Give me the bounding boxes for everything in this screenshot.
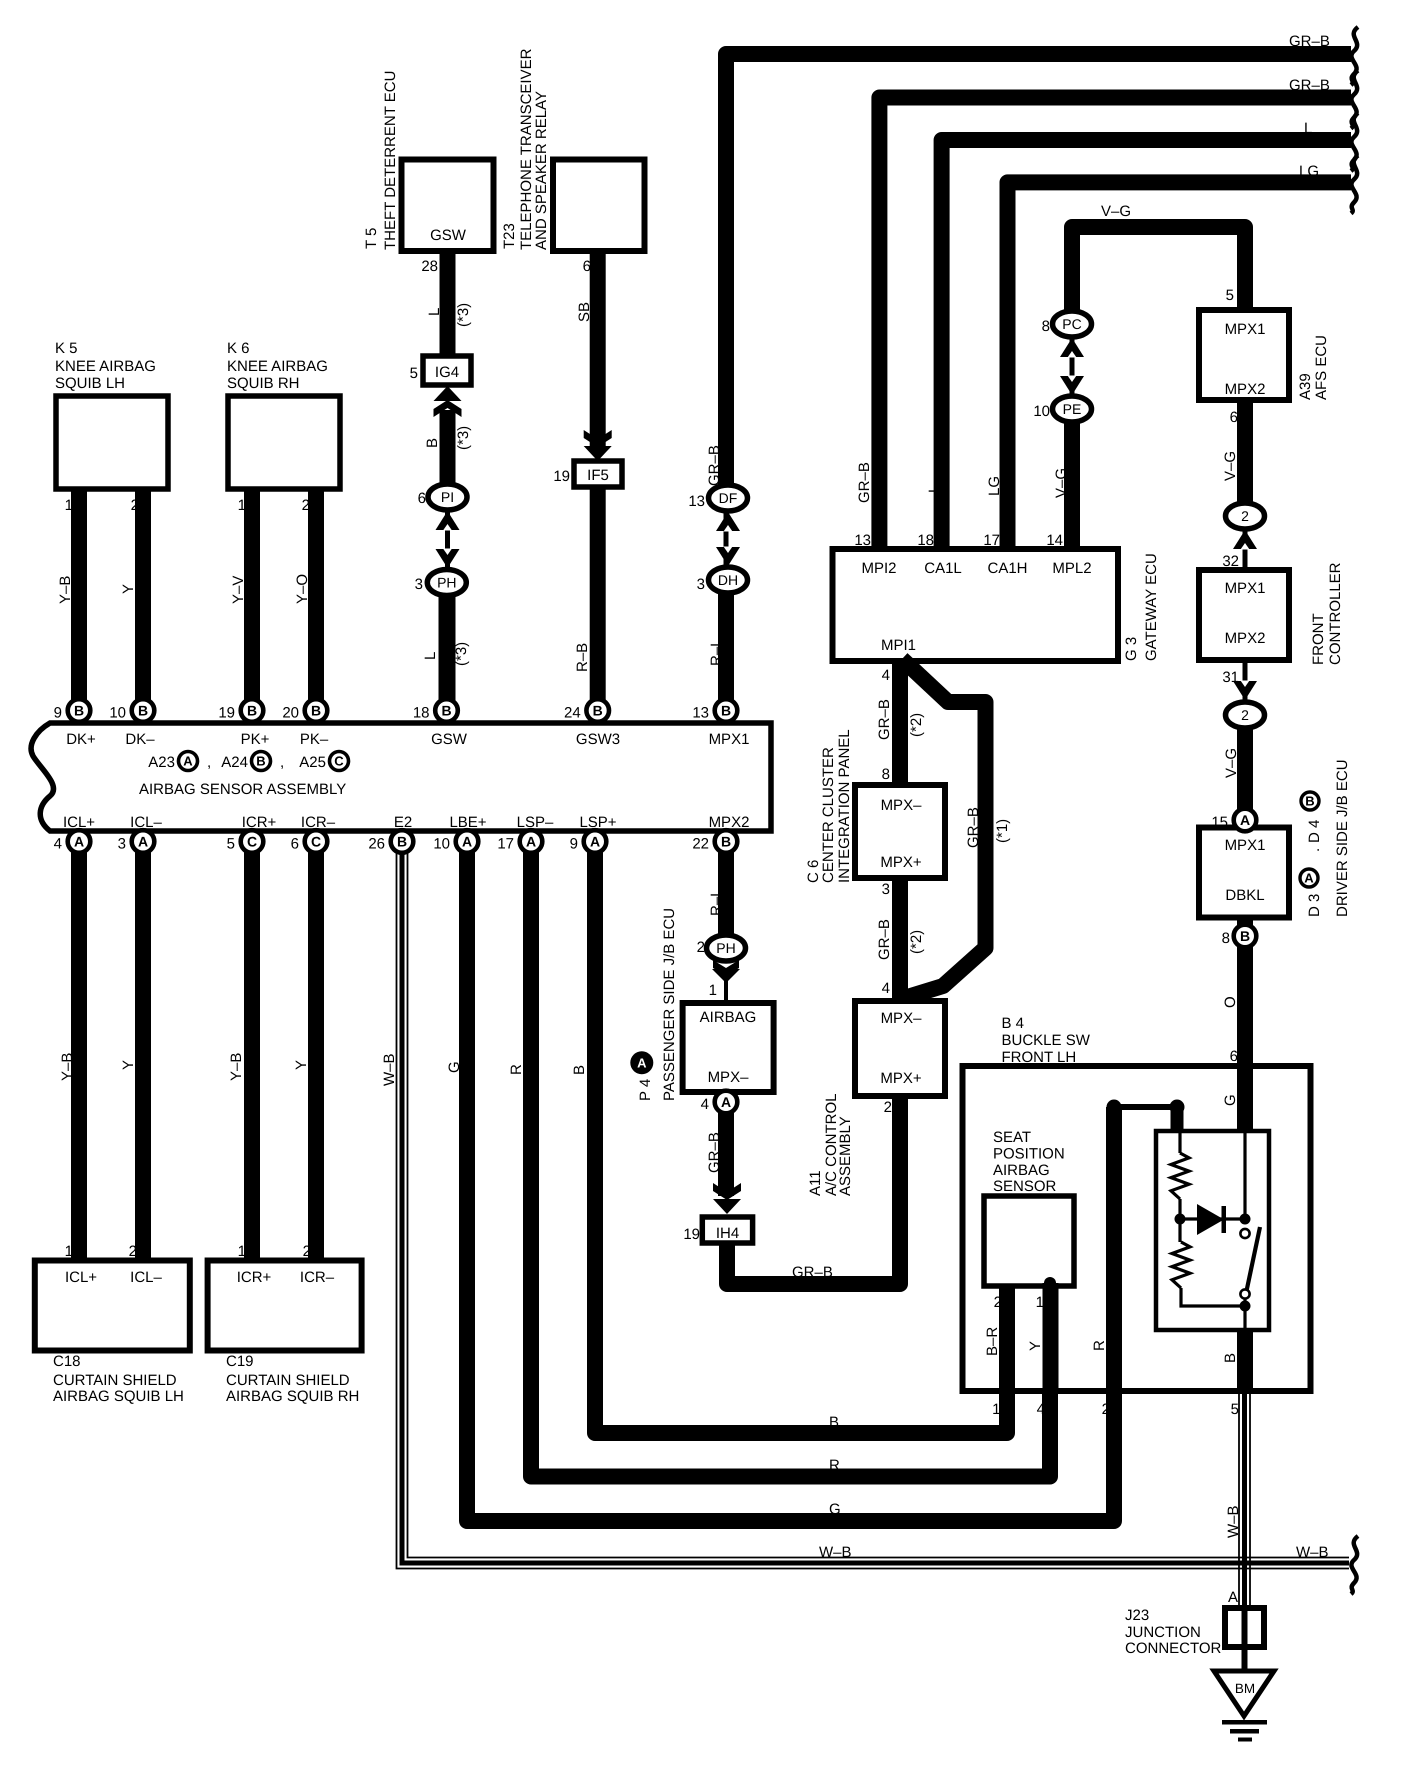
- component T23 box: [553, 160, 645, 252]
- svg-text:(*3): (*3): [453, 642, 470, 666]
- component G3 GATEWAY ECU box: [833, 549, 1119, 661]
- svg-text:A11: A11: [807, 1170, 824, 1196]
- svg-text:6: 6: [1230, 1048, 1238, 1065]
- wire junction2 to driver JB V-G: [1237, 728, 1253, 822]
- svg-text:B: B: [256, 754, 265, 769]
- wire MPI1 GR-B (*2) to C6: [892, 661, 908, 790]
- svg-text:26: 26: [368, 836, 385, 853]
- svg-text:,: ,: [207, 754, 211, 771]
- svg-text:D 4: D 4: [1306, 820, 1323, 843]
- svg-text:B: B: [247, 703, 257, 719]
- svg-text:A: A: [183, 754, 193, 769]
- svg-text:B: B: [829, 1414, 839, 1431]
- pin 5 C circle assembly bottom: [241, 830, 264, 853]
- svg-text:B: B: [571, 1065, 588, 1075]
- svg-text:POSITION: POSITION: [993, 1146, 1065, 1163]
- svg-text:Y–B: Y–B: [228, 1053, 245, 1081]
- wire PE to gateway MPL2 V-G: [1064, 422, 1080, 549]
- svg-text:L: L: [1304, 120, 1312, 137]
- svg-text:2: 2: [994, 1294, 1002, 1311]
- svg-text:C19: C19: [226, 1353, 254, 1370]
- svg-text:5: 5: [1231, 1401, 1239, 1418]
- break symbol GR-B second: [1351, 71, 1358, 129]
- svg-text:MPX2: MPX2: [1225, 630, 1266, 647]
- svg-text:6: 6: [291, 836, 299, 853]
- svg-text:B: B: [721, 703, 731, 719]
- svg-text:(*1): (*1): [994, 819, 1011, 843]
- connector PH pin 3: [427, 570, 466, 596]
- ground symbol: [1222, 1720, 1267, 1725]
- svg-text:G: G: [1222, 1094, 1239, 1106]
- wire T23 pin6 SB: [590, 251, 606, 446]
- svg-text:A39: A39: [1297, 373, 1314, 400]
- svg-text:28: 28: [421, 258, 438, 275]
- pin 4 A circle assembly bottom: [68, 830, 91, 853]
- svg-text:DF: DF: [719, 490, 738, 506]
- svg-text:3: 3: [415, 576, 423, 593]
- wire J23 to ground triangle: [1242, 1650, 1248, 1672]
- svg-text:W–B: W–B: [819, 1544, 852, 1561]
- svg-text:2: 2: [129, 1243, 137, 1260]
- svg-text:GR–B: GR–B: [706, 445, 723, 486]
- svg-text:B: B: [1222, 1353, 1239, 1363]
- svg-text:JUNCTION: JUNCTION: [1125, 1624, 1201, 1641]
- svg-text:A: A: [462, 834, 472, 850]
- svg-text:L: L: [926, 485, 943, 493]
- arrow up into DF: [716, 512, 740, 531]
- resistor R1 seat belt: [1171, 1153, 1189, 1199]
- node junction right: [1240, 1214, 1251, 1225]
- wire GR-B MPI2 to right edge: [879, 98, 1351, 550]
- svg-text:AIRBAG: AIRBAG: [700, 1009, 757, 1026]
- svg-text:B: B: [424, 438, 441, 448]
- svg-text:8: 8: [882, 766, 890, 783]
- pin 24 B circle assembly top: [586, 699, 609, 722]
- svg-text:3: 3: [697, 576, 705, 593]
- svg-text:GSW3: GSW3: [576, 731, 620, 748]
- svg-text:PK+: PK+: [241, 731, 270, 748]
- svg-text:B: B: [441, 703, 451, 719]
- component C18 CURTAIN SHIELD AIRBAG SQUIB LH box: [35, 1261, 190, 1351]
- svg-text:AIRBAG SQUIB LH: AIRBAG SQUIB LH: [53, 1388, 184, 1405]
- pin 9 A circle assembly bottom: [584, 830, 607, 853]
- svg-text:18: 18: [917, 532, 934, 549]
- svg-text:R: R: [508, 1064, 525, 1075]
- wire C6 pin3 GR-B (*2) to A11: [892, 878, 908, 1005]
- svg-text:MPX1: MPX1: [1225, 321, 1266, 338]
- wire G inside B4 to switch box: [1237, 1066, 1253, 1131]
- svg-text:MPX+: MPX+: [880, 854, 922, 871]
- svg-text:LG: LG: [986, 476, 1003, 496]
- svg-text:GATEWAY ECU: GATEWAY ECU: [1143, 553, 1160, 661]
- wire GR-B MPX1 to right edge: [726, 54, 1351, 485]
- svg-text:3: 3: [118, 836, 126, 853]
- arrow into IH4: [713, 1199, 741, 1214]
- svg-text:2: 2: [1241, 707, 1249, 723]
- svg-text:1: 1: [709, 982, 717, 999]
- wire LBE+ G route: [467, 831, 1114, 1521]
- wire B from switch to B4 pin5: [1237, 1330, 1253, 1391]
- svg-text:Y–B: Y–B: [57, 576, 74, 604]
- svg-text:IF5: IF5: [587, 467, 609, 484]
- svg-text:5: 5: [227, 836, 235, 853]
- connector PH pin 2: [707, 935, 746, 961]
- svg-text:LSP–: LSP–: [517, 814, 554, 831]
- svg-text:SB: SB: [576, 302, 593, 322]
- svg-text:ICR+: ICR+: [242, 814, 277, 831]
- svg-text:B: B: [593, 703, 603, 719]
- wire W-B B4 pin5 to J23: [1242, 1391, 1247, 1652]
- component K6 KNEE AIRBAG SQUIB RH box: [228, 396, 340, 489]
- svg-text:19: 19: [683, 1226, 700, 1243]
- svg-text:2: 2: [302, 497, 310, 514]
- svg-text:PC: PC: [1062, 316, 1081, 332]
- svg-text:KNEE AIRBAG: KNEE AIRBAG: [227, 358, 328, 375]
- wire ICL- Y: [135, 831, 151, 1260]
- component P4 PASSENGER SIDE J/B ECU marker: [630, 1051, 653, 1074]
- svg-text:L: L: [426, 308, 443, 316]
- svg-text:R: R: [829, 1457, 840, 1474]
- svg-text:G: G: [829, 1501, 841, 1518]
- svg-text:2: 2: [884, 1099, 892, 1116]
- svg-text:DK–: DK–: [125, 731, 155, 748]
- wire K6 pin2 Y-O: [308, 489, 324, 718]
- wire K5 pin2 Y: [135, 489, 151, 718]
- svg-text:6: 6: [418, 490, 426, 507]
- svg-text:PI: PI: [441, 489, 454, 505]
- svg-text:ICR+: ICR+: [237, 1269, 272, 1286]
- wire assembly MPX2 R-L to PH: [718, 831, 734, 937]
- svg-text:P 4: P 4: [637, 1079, 654, 1101]
- svg-text:4: 4: [882, 980, 890, 997]
- svg-text:C: C: [334, 754, 344, 769]
- svg-text:V–G: V–G: [1222, 451, 1239, 481]
- svg-text:8: 8: [1222, 930, 1230, 947]
- svg-text:AFS ECU: AFS ECU: [1313, 335, 1330, 400]
- svg-text:10: 10: [1033, 403, 1050, 420]
- svg-text:AND SPEAKER RELAY: AND SPEAKER RELAY: [533, 91, 550, 250]
- wire LSP+ B route: [595, 831, 1007, 1433]
- wire airbag pin4 GR-B: [718, 1092, 734, 1196]
- svg-text:GR–B: GR–B: [792, 1264, 833, 1281]
- svg-text:17: 17: [983, 532, 1000, 549]
- svg-text:CURTAIN SHIELD: CURTAIN SHIELD: [53, 1372, 177, 1389]
- wire PH to assembly GSW L: [440, 593, 456, 718]
- svg-text:13: 13: [688, 493, 705, 510]
- svg-text:.: .: [1306, 848, 1323, 852]
- pin 18 B circle assembly top: [435, 699, 458, 722]
- pin 17 A circle assembly bottom: [520, 830, 543, 853]
- wire E2 W-B to right edge: [402, 831, 1349, 1563]
- svg-text:SQUIB RH: SQUIB RH: [227, 375, 300, 392]
- svg-text:B: B: [311, 703, 321, 719]
- svg-text:R: R: [1091, 1340, 1108, 1351]
- connector DF / DH pair: [724, 505, 729, 580]
- svg-text:5: 5: [1226, 287, 1234, 304]
- break symbol W-B right: [1351, 1536, 1358, 1594]
- svg-text:(*2): (*2): [908, 930, 925, 954]
- svg-text:24: 24: [564, 705, 581, 722]
- svg-text:2: 2: [697, 939, 705, 956]
- svg-text:9: 9: [54, 705, 62, 722]
- arrow up into PC: [1060, 338, 1084, 357]
- component FRONT CONTROLLER box: [1199, 570, 1289, 660]
- wire K6 pin1 Y-V: [244, 489, 260, 718]
- svg-text:Y–B: Y–B: [59, 1053, 76, 1081]
- svg-text:GR–B: GR–B: [706, 1132, 723, 1173]
- junction 2 lower oval: [1226, 702, 1265, 728]
- svg-text:DK+: DK+: [66, 731, 96, 748]
- component C6 CENTER CLUSTER INTEGRATION PANEL box: [855, 785, 945, 878]
- svg-text:KNEE AIRBAG: KNEE AIRBAG: [55, 358, 156, 375]
- svg-text:9: 9: [570, 836, 578, 853]
- component A11 A/C CONTROL ASSEMBLY box: [855, 1001, 945, 1096]
- diode D1: [1180, 1217, 1245, 1220]
- wire DH to assembly MPX1 R-L: [718, 593, 734, 718]
- pin 10 A circle assembly bottom: [456, 830, 479, 853]
- svg-text:Y: Y: [120, 584, 137, 594]
- svg-text:CA1L: CA1L: [924, 560, 962, 577]
- svg-text:B: B: [138, 703, 148, 719]
- arrow up into PI: [436, 511, 460, 530]
- svg-text:AIRBAG: AIRBAG: [993, 1162, 1050, 1179]
- wire L CA1L to right edge: [942, 140, 1351, 549]
- svg-text:C18: C18: [53, 1353, 81, 1370]
- svg-text:GSW: GSW: [431, 731, 468, 748]
- component J23 JUNCTION CONNECTOR box: [1225, 1608, 1264, 1647]
- svg-text:ICR–: ICR–: [300, 1269, 335, 1286]
- arrow down into DH: [716, 547, 740, 566]
- svg-text:A: A: [637, 1056, 647, 1071]
- arrow down from PH into airbag ECU: [712, 969, 740, 983]
- svg-text:MPX–: MPX–: [881, 1010, 923, 1027]
- svg-text:J23: J23: [1125, 1607, 1149, 1624]
- pin 13 B circle assembly top: [715, 699, 738, 722]
- svg-text:GR–B: GR–B: [856, 462, 873, 503]
- svg-text:GR–B: GR–B: [876, 919, 893, 960]
- svg-text:MPL2: MPL2: [1052, 560, 1091, 577]
- svg-text:THEFT DETERRENT ECU: THEFT DETERRENT ECU: [382, 71, 399, 250]
- svg-text:D 3: D 3: [1306, 894, 1323, 917]
- svg-text:GR–B: GR–B: [876, 699, 893, 740]
- svg-text:1: 1: [992, 1401, 1000, 1418]
- svg-text:GR–B: GR–B: [1289, 77, 1330, 94]
- svg-text:(*3): (*3): [455, 303, 472, 327]
- svg-text:10: 10: [433, 836, 450, 853]
- svg-text:(*3): (*3): [455, 426, 472, 450]
- svg-text:Y–V: Y–V: [230, 576, 247, 604]
- wire ICL+ Y-B: [71, 831, 87, 1260]
- svg-text:20: 20: [282, 705, 299, 722]
- component T5 THEFT DETERRENT ECU box: [402, 160, 494, 252]
- pin 26 B circle assembly bottom: [391, 830, 414, 853]
- svg-text:B: B: [1305, 794, 1314, 809]
- svg-text:10: 10: [109, 705, 126, 722]
- svg-text:6: 6: [583, 258, 591, 275]
- svg-text:2: 2: [303, 1243, 311, 1260]
- svg-text:MPX2: MPX2: [1225, 381, 1266, 398]
- connector PC pin 8: [1053, 311, 1092, 337]
- svg-text:A: A: [1228, 1589, 1238, 1606]
- svg-text:13: 13: [854, 532, 871, 549]
- arrow down into junction 2 lower: [1233, 681, 1257, 700]
- svg-text:1: 1: [238, 497, 246, 514]
- svg-text:13: 13: [692, 705, 709, 722]
- pin 20 B circle assembly top: [305, 699, 328, 722]
- pin 3 A circle assembly bottom: [132, 830, 155, 853]
- svg-text:L: L: [422, 652, 439, 660]
- switch contact upper: [1240, 1229, 1249, 1238]
- svg-text:1: 1: [238, 1243, 246, 1260]
- svg-text:2: 2: [1102, 1401, 1110, 1418]
- svg-text:B: B: [1240, 928, 1250, 944]
- svg-text:CA1H: CA1H: [987, 560, 1027, 577]
- svg-text:3: 3: [882, 881, 890, 898]
- svg-text:FRONT: FRONT: [1310, 613, 1327, 665]
- wire IG4 to PI B: [440, 410, 456, 487]
- svg-text:(*2): (*2): [908, 713, 925, 737]
- svg-text:MPX1: MPX1: [1225, 837, 1266, 854]
- svg-text:A23: A23: [148, 754, 175, 771]
- wire seat sensor pin1 Y: [1043, 1283, 1059, 1391]
- break symbol LG: [1351, 155, 1358, 213]
- svg-text:PASSENGER SIDE J/B ECU: PASSENGER SIDE J/B ECU: [661, 908, 678, 1101]
- svg-text:IG4: IG4: [435, 364, 459, 381]
- svg-text:R–L: R–L: [708, 888, 725, 916]
- component D3/D4 DRIVER SIDE J/B ECU box: [1199, 828, 1289, 918]
- switch contact lower: [1240, 1289, 1249, 1298]
- wire T5 pin28 L: [440, 251, 456, 356]
- svg-text:A: A: [590, 834, 600, 850]
- pin 6 C circle assembly bottom: [305, 830, 328, 853]
- svg-text:MPI2: MPI2: [861, 560, 896, 577]
- svg-text:AIRBAG SQUIB RH: AIRBAG SQUIB RH: [226, 1388, 359, 1405]
- component C19 CURTAIN SHIELD AIRBAG SQUIB RH box: [208, 1261, 362, 1351]
- svg-text:MPX–: MPX–: [881, 797, 923, 814]
- svg-text:19: 19: [218, 705, 235, 722]
- wire R inside B4 to switch box: [1106, 1107, 1122, 1391]
- wires assembly top pins: [439, 596, 455, 723]
- svg-text:BUCKLE SW: BUCKLE SW: [1002, 1032, 1091, 1049]
- ground triangle BM: [1214, 1671, 1274, 1716]
- svg-text:4: 4: [882, 667, 890, 684]
- connector IF5 junction: [574, 461, 622, 487]
- svg-text:18: 18: [413, 705, 430, 722]
- svg-text:GSW: GSW: [430, 227, 467, 244]
- svg-text:15: 15: [1211, 814, 1228, 831]
- svg-text:19: 19: [553, 468, 570, 485]
- svg-text:INTEGRATION PANEL: INTEGRATION PANEL: [836, 729, 853, 883]
- svg-text:T 5: T 5: [363, 228, 380, 249]
- svg-text:V–G: V–G: [1101, 203, 1131, 220]
- svg-text:B: B: [721, 834, 731, 850]
- pin 9 B circle assembly top: [68, 699, 91, 722]
- svg-text:Y–O: Y–O: [294, 574, 311, 604]
- component A23/A24/A25 AIRBAG SENSOR ASSEMBLY box: [31, 723, 771, 831]
- connector DF pin 13: [709, 485, 748, 511]
- wire A11 pin2 GR-B to IH4: [727, 1096, 900, 1284]
- svg-text:MPI1: MPI1: [881, 637, 916, 654]
- svg-text:A: A: [526, 834, 536, 850]
- svg-text:LG: LG: [1299, 163, 1319, 180]
- svg-text:MPX1: MPX1: [1225, 580, 1266, 597]
- connector PI pin 6: [428, 484, 467, 510]
- connector PC / PE pair: [1070, 330, 1075, 400]
- svg-text:W–B: W–B: [381, 1053, 398, 1086]
- component K5 KNEE AIRBAG SQUIB LH box: [56, 396, 168, 489]
- svg-text:4: 4: [1037, 1401, 1045, 1418]
- svg-text:K 5: K 5: [55, 340, 78, 357]
- thin line from G wire to switch node: [1243, 1131, 1246, 1214]
- svg-text:A: A: [138, 834, 148, 850]
- svg-text:PE: PE: [1063, 401, 1082, 417]
- svg-text:PK–: PK–: [300, 731, 329, 748]
- svg-text:A25: A25: [299, 754, 326, 771]
- connector DH pin 3: [709, 567, 748, 593]
- svg-text:C: C: [311, 834, 321, 850]
- svg-text:CONTROLLER: CONTROLLER: [1327, 562, 1344, 665]
- svg-text:CURTAIN SHIELD: CURTAIN SHIELD: [226, 1372, 350, 1389]
- svg-text:A24: A24: [221, 754, 248, 771]
- svg-text:A: A: [1304, 871, 1314, 886]
- connector IG4 junction: [423, 356, 471, 385]
- svg-text:PH: PH: [716, 940, 735, 956]
- svg-text:2: 2: [131, 497, 139, 514]
- svg-text:GR–B: GR–B: [965, 807, 982, 848]
- svg-text:K 6: K 6: [227, 340, 250, 357]
- svg-text:R–B: R–B: [574, 643, 591, 672]
- wire GR-B (*1) bypass: [902, 659, 986, 998]
- wire AFS pin6 V-G: [1237, 400, 1253, 505]
- wire ICR+ Y-B: [244, 831, 260, 1260]
- wire K5 pin1 Y-B: [71, 489, 87, 718]
- junction oval 2 upper: [1243, 516, 1248, 572]
- svg-text:ICL+: ICL+: [65, 1269, 97, 1286]
- pin 15 A circle driver JB: [1234, 809, 1257, 832]
- svg-text:MPX+: MPX+: [880, 1070, 922, 1087]
- svg-text:B: B: [397, 834, 407, 850]
- node junction left: [1175, 1214, 1186, 1225]
- svg-text:W–B: W–B: [1296, 1544, 1329, 1561]
- connector PI / PH pair on GSW line: [445, 505, 450, 580]
- svg-text:SEAT: SEAT: [993, 1129, 1031, 1146]
- svg-text:6: 6: [1230, 409, 1238, 426]
- pin 19 B circle assembly top: [241, 699, 264, 722]
- svg-text:5: 5: [410, 365, 418, 382]
- wire seat sensor pin2 B-R: [999, 1286, 1015, 1391]
- arrow into IG4: [434, 386, 462, 401]
- svg-text:17: 17: [497, 836, 514, 853]
- pin 8 B circle driver JB: [1234, 925, 1257, 948]
- junction oval 2 lower: [1243, 660, 1248, 705]
- svg-text:PH: PH: [437, 575, 456, 591]
- svg-text:Y: Y: [1027, 1341, 1044, 1351]
- svg-text:ASSEMBLY: ASSEMBLY: [837, 1116, 854, 1196]
- connector IH4 junction: [702, 1217, 752, 1243]
- arrow into IF5: [584, 446, 612, 461]
- arrow down into PE: [1060, 376, 1084, 395]
- svg-text:T23: T23: [501, 223, 518, 249]
- wire ICR- Y: [308, 831, 324, 1260]
- svg-text:A: A: [74, 834, 84, 850]
- arrow up into junction 2 upper: [1233, 530, 1257, 549]
- svg-text:B–R: B–R: [984, 1327, 1001, 1356]
- svg-text:MPX–: MPX–: [708, 1069, 750, 1086]
- wire IF5 to assembly GSW3 R-B: [590, 487, 606, 718]
- svg-text:V–G: V–G: [1223, 748, 1240, 778]
- component P4 AIRBAG box: [683, 1003, 774, 1092]
- svg-text:V–G: V–G: [1053, 468, 1070, 498]
